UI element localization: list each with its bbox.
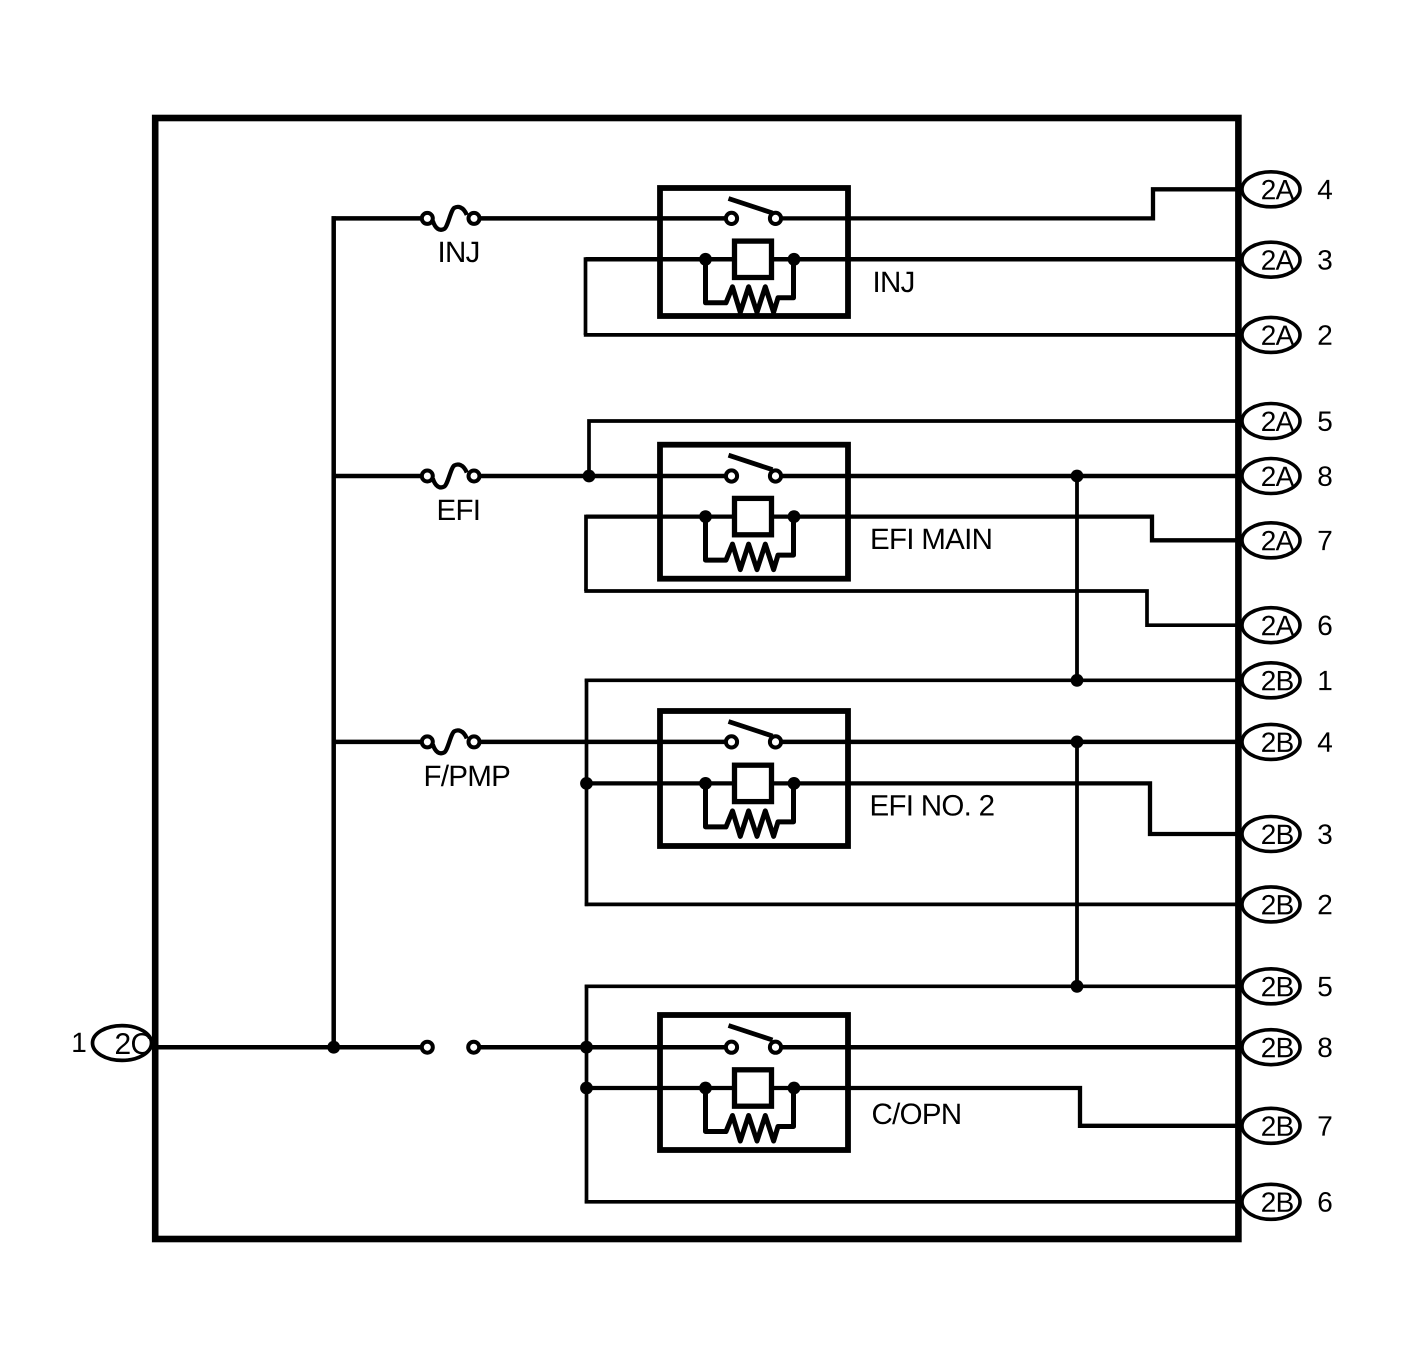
fuse F/PMP [422,730,480,753]
resistor of relay INJ [706,259,794,312]
open contact (connector gap) on 2C row [422,1042,479,1053]
switch contacts of relay EFI MAIN [726,470,781,481]
label pin number 8 of 2B [1318,1037,1331,1057]
resistor of relay EFI NO. 2 [706,783,794,836]
wire: EFI fuse to relay switch [479,474,732,479]
wire: EFI NO. 2 left vertical [585,679,589,907]
coil of relay INJ (square) [735,241,772,277]
label pin number 6 of 2A [1319,615,1332,635]
wire: main supply bus vertical from INJ fuse row down to 2C row [331,216,336,1047]
junction: tie A bottom [1071,674,1084,687]
wire: open contact to relay switch [478,1045,731,1050]
wire: EFI MAIN coil-left drop [584,515,588,591]
fuse INJ [422,207,480,230]
wire: C/OPN coil row, step down to terminal 2B-7 [587,1088,1243,1126]
fuse EFI [422,465,480,488]
junction: EFI NO. 2 coil right [788,777,801,790]
terminal 2B pin 6 (oval) [1242,1184,1300,1219]
junction: C/OPN coil left [699,1082,712,1095]
switch blade of relay C/OPN [729,1026,773,1041]
terminal 2A pin 3 (oval) [1242,242,1300,277]
junction: bus meets 2C row [327,1041,340,1054]
wire: INJ lower wire to terminal 2A-2 [584,333,1242,337]
label fuse F/PMP [426,765,509,787]
label fuse INJ [440,242,478,263]
connector 2C oval [93,1026,152,1061]
outer boundary box of fuse/relay block [155,118,1238,1239]
label relay EFI MAIN [872,529,990,549]
junction: upper branch meets EFI row [583,470,596,483]
wire: EFI MAIN coil row, step down to terminal 2A-7 [586,517,1242,541]
junction: EFI NO. 2 coil meets left vertical [580,777,593,790]
coil of relay EFI NO. 2 (square) [735,765,772,801]
wire: EFI NO. 2 coil row, step down to terminal 2B-3 [587,783,1243,834]
label pin number 4 of 2B [1318,732,1332,751]
terminal 2A pin 7 (oval) [1242,523,1300,558]
label pin number 3 of 2A [1318,250,1331,270]
label pin number 2 of 2B [1319,895,1332,915]
junction: INJ coil right [788,253,801,266]
terminal 2B pin 2 (oval) [1242,887,1300,922]
label pin number 7 of 2A [1319,531,1332,550]
terminal 2B pin 3 (oval) [1242,817,1300,852]
label pin number 3 of 2B [1318,824,1331,844]
wire: bus to INJ fuse [332,216,428,221]
switch contacts of relay EFI NO. 2 [726,736,781,747]
switch blade of relay EFI NO. 2 [729,722,773,737]
label relay C/OPN [873,1103,960,1125]
resistor of relay EFI MAIN [706,517,794,570]
junction: EFI MAIN coil right [788,510,801,523]
relay EFI MAIN box [660,445,848,579]
label connector 2C [116,1033,151,1054]
label relay EFI NO. 2 [872,795,994,816]
resistor of relay C/OPN [706,1088,794,1141]
junction: EFI MAIN coil left [699,510,712,523]
wire: bus to F/PMP fuse [332,740,428,745]
wire: INJ coil-left drop [584,257,588,335]
terminal 2A pin 6 (oval) [1242,608,1300,643]
relay C/OPN box [660,1015,848,1150]
wire: INJ coil row to terminal 2A-3 [586,257,1243,262]
wire: 2C feed from connector through bus junction to open contact [150,1045,427,1050]
junction: C/OPN left vertical meets 2C row [580,1041,593,1054]
coil of relay EFI MAIN (square) [735,498,772,534]
wire: upper wire to terminal 2B-5 [585,984,1242,988]
wire: EFI MAIN switch out to terminal 2A-8 [776,474,1243,479]
terminal 2B pin 4 (oval) [1242,724,1300,759]
relay EFI NO. 2 box [660,711,848,846]
wire: C/OPN switch out to terminal 2B-8 [776,1045,1243,1050]
wire: vertical tie from 2A-8 row to 2B-1 row [1075,476,1079,680]
junction: EFI NO. 2 coil left [699,777,712,790]
terminal 2B pin 1 (oval) [1242,663,1300,698]
junction: tie B top [1071,736,1084,749]
wire: bus to EFI fuse [332,474,428,479]
junction: INJ coil left [699,253,712,266]
terminal 2B pin 8 (oval) [1242,1030,1300,1065]
wire: C/OPN lower wire to terminal 2B-6 [585,1200,1242,1204]
label pin number 6 of 2B [1319,1192,1332,1212]
switch blade of relay INJ [729,199,773,214]
terminal 2B pin 5 (oval) [1242,969,1300,1004]
label pin number 5 of 2A [1318,412,1331,432]
label pin number 4 of 2A [1318,180,1332,199]
wire: EFI MAIN lower wire, step down to terminal 2A-6 [584,591,1242,625]
label pin 1 of connector 2C [73,1033,85,1052]
switch blade of relay EFI MAIN [729,455,773,470]
switch contacts of relay C/OPN [726,1042,781,1053]
wire: INJ switch out, step up to terminal 2A-4 [776,189,1243,218]
label pin number 7 of 2B [1319,1116,1332,1135]
coil of relay C/OPN (square) [735,1070,772,1106]
junction: C/OPN coil right [788,1082,801,1095]
label pin number 5 of 2B [1318,977,1331,997]
terminal 2A pin 2 (oval) [1242,317,1300,352]
wire: EFI NO. 2 switch out to terminal 2B-4 [776,740,1243,745]
wire: upper wire to terminal 2B-1 [585,678,1242,682]
label fuse EFI [439,500,478,520]
wire: vertical tie from 2B-4 row to 2B-5 row [1075,742,1079,986]
wire: F/PMP fuse to relay switch [479,740,732,745]
label pin number 2 of 2A [1319,325,1332,345]
relay INJ box [660,188,848,316]
terminal 2B pin 7 (oval) [1242,1108,1300,1143]
wire: upper branch to terminal 2A-5 [589,421,1242,476]
label relay INJ [875,272,913,293]
terminal 2A pin 8 (oval) [1242,459,1300,494]
terminal 2A pin 5 (oval) [1242,404,1300,439]
junction: tie B bottom [1071,980,1084,993]
junction: C/OPN coil meets left vertical [580,1082,593,1095]
junction: tie A top [1071,470,1084,483]
terminal 2A pin 4 (oval) [1242,172,1300,207]
wire: INJ fuse to relay switch [479,216,732,221]
label pin number 8 of 2A [1318,466,1331,486]
wire: C/OPN left vertical [585,985,589,1204]
wire: EFI NO. 2 lower wire to terminal 2B-2 [585,903,1242,907]
switch contacts of relay INJ [726,213,781,224]
label pin number 1 of 2B [1319,671,1331,690]
